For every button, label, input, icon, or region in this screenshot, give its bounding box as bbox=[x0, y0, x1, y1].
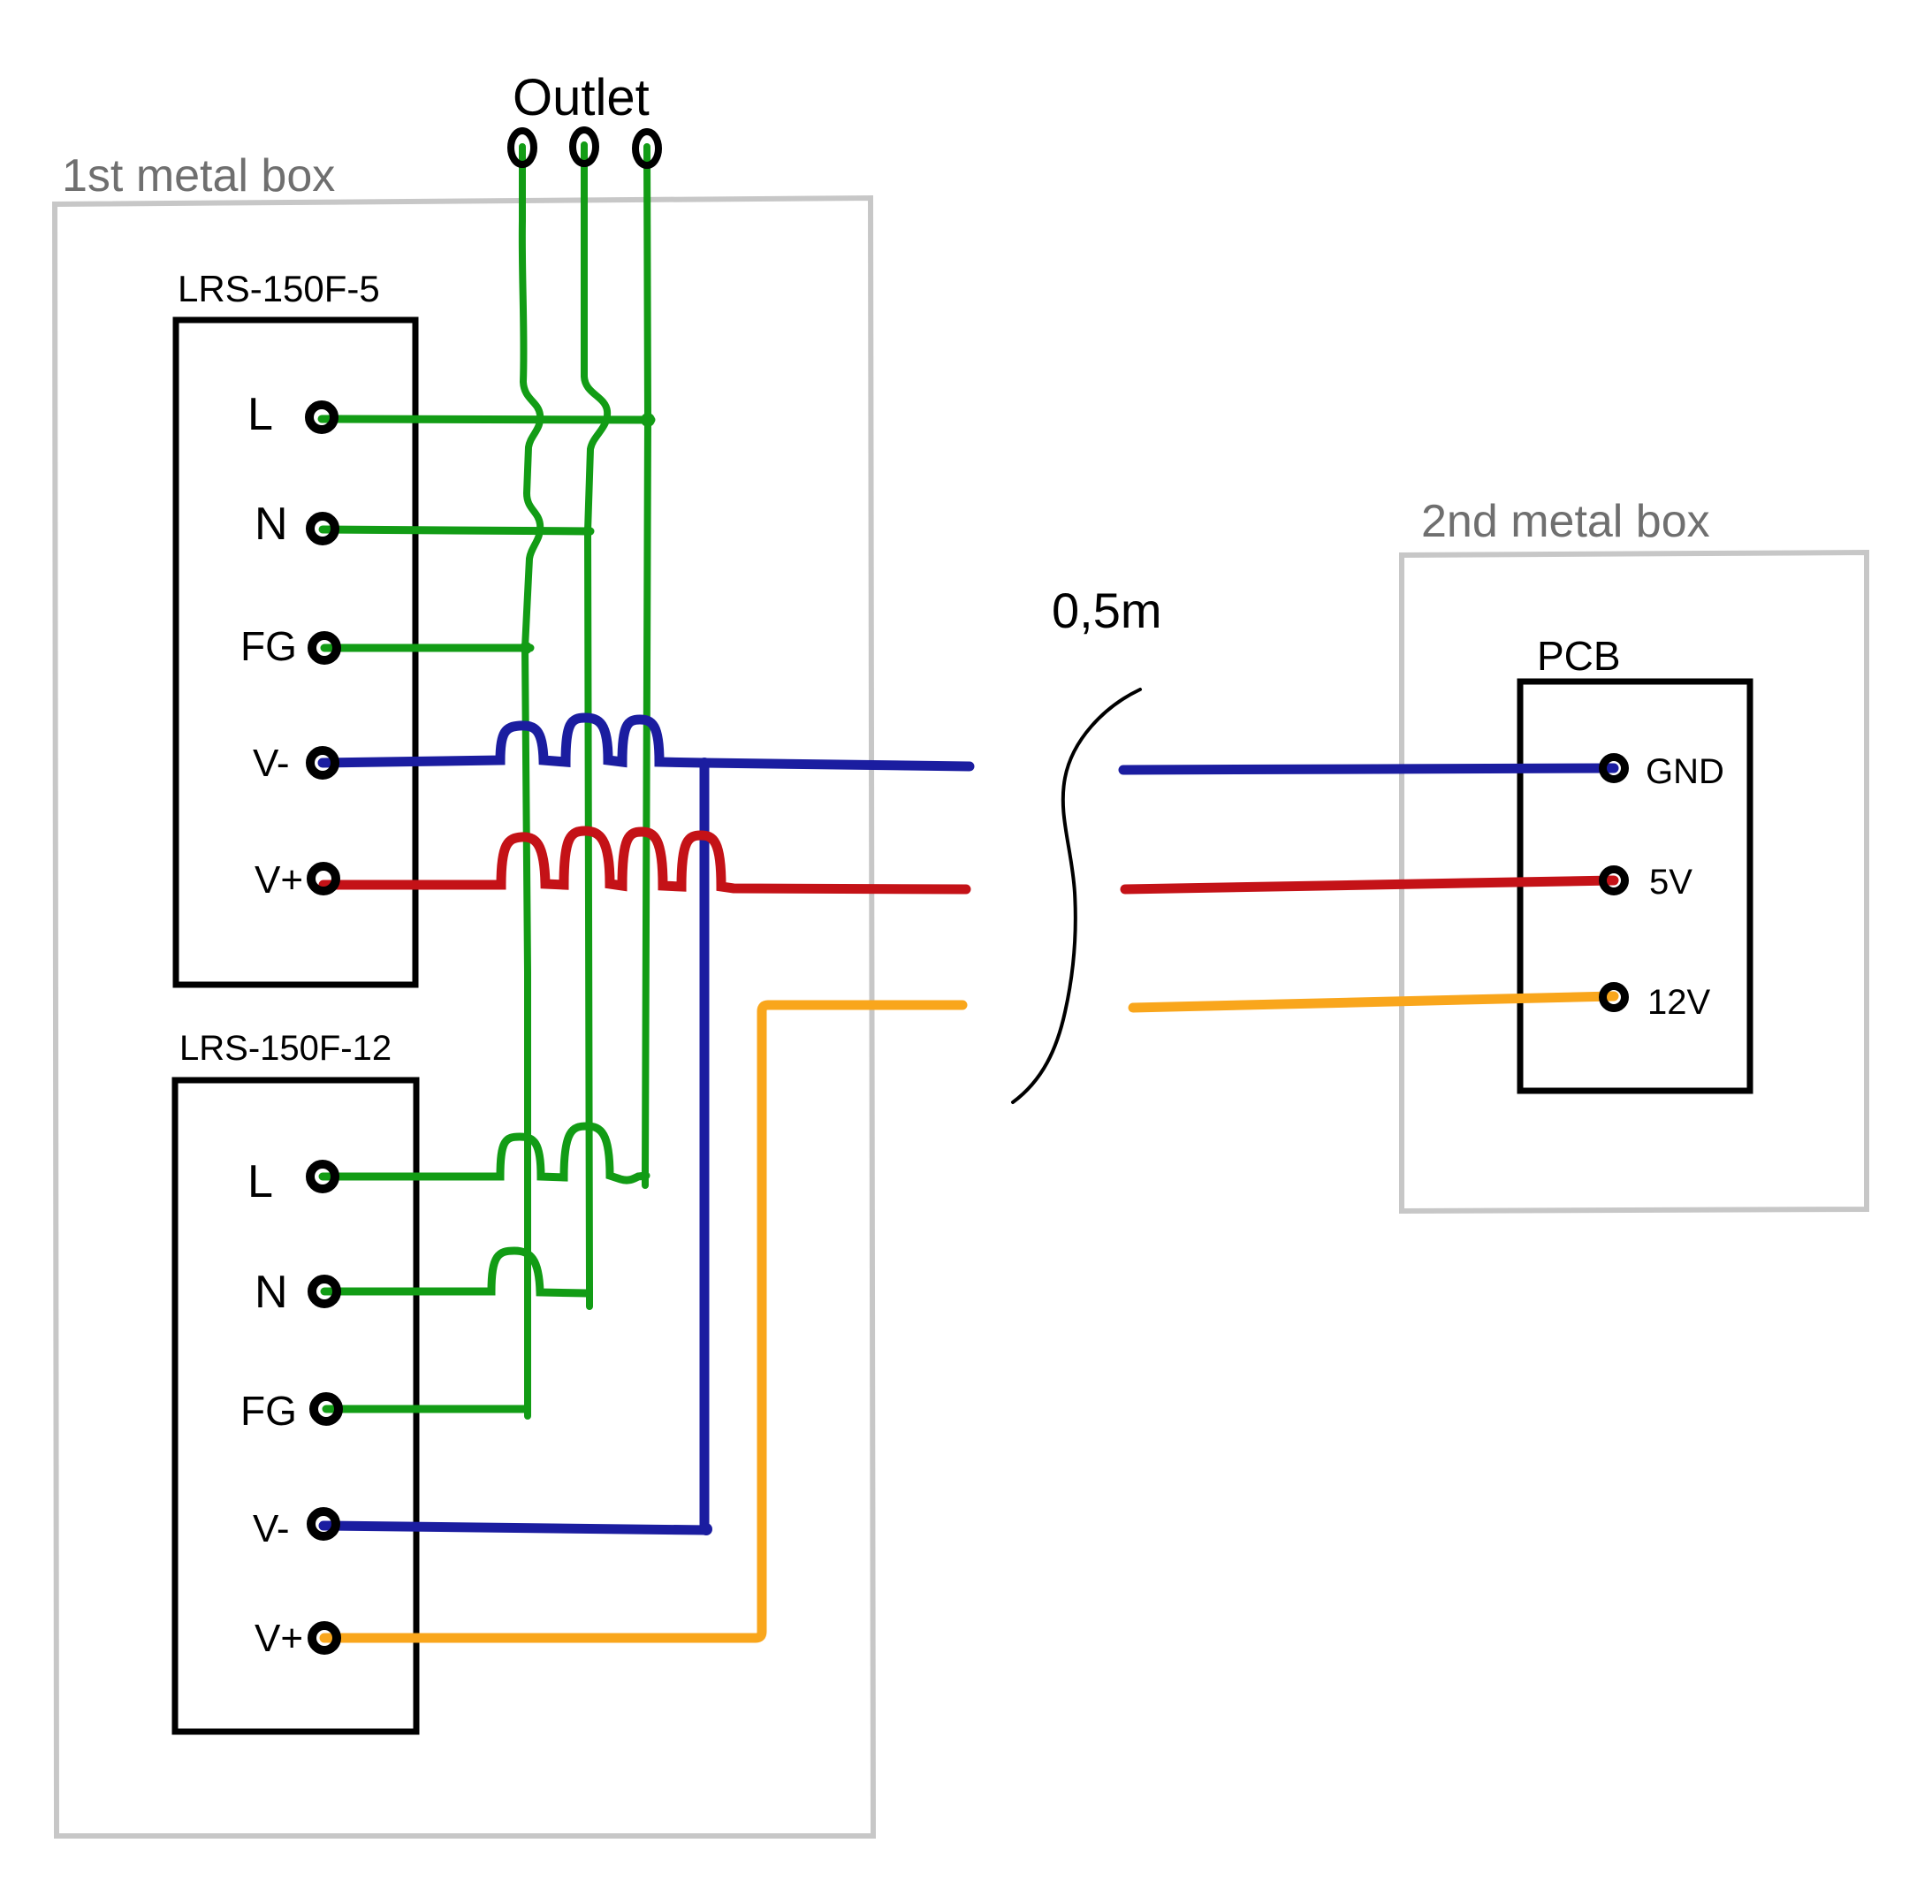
svg-text:PCB: PCB bbox=[1537, 633, 1621, 679]
terminal U1.V- bbox=[310, 750, 335, 775]
terminal U1.FG bbox=[312, 636, 337, 660]
outlet pin 3 bbox=[635, 132, 658, 165]
terminal U2.V- bbox=[311, 1512, 336, 1536]
wire FG2 feed (green) bbox=[326, 1405, 527, 1413]
terminal U1.L bbox=[309, 405, 334, 430]
svg-text:V+: V+ bbox=[255, 858, 303, 902]
line wire w3 from outlet pin3 down to U2.L bbox=[645, 147, 648, 1185]
wire N2 feed (green with hop over w1) bbox=[324, 1251, 587, 1293]
svg-text:V-: V- bbox=[253, 742, 290, 785]
wire 5V segment (red, cable to PCB.5V) bbox=[1125, 880, 1614, 889]
wire L2 feed (green with hops over w1,w2) bbox=[323, 1126, 646, 1180]
svg-text:L: L bbox=[247, 389, 273, 440]
wire V+2 (orange, U2.V+ up and right to cable break) bbox=[324, 1005, 962, 1638]
wire V+1 (red, U1.V+ with hops, to cable break) bbox=[323, 831, 966, 889]
wire V-1 (blue, U1.V- with hops, to cable break) bbox=[323, 718, 970, 766]
svg-text:FG: FG bbox=[240, 623, 297, 669]
1st metal box enclosure bbox=[55, 198, 873, 1836]
terminal PCB.12V bbox=[1603, 986, 1625, 1009]
svg-text:12V: 12V bbox=[1647, 983, 1710, 1022]
outlet pin 1 bbox=[511, 131, 534, 164]
svg-text:L: L bbox=[247, 1156, 273, 1207]
terminal PCB.5V bbox=[1603, 870, 1625, 892]
wire 12V segment (orange, cable to PCB.12V) bbox=[1133, 996, 1614, 1008]
terminal U1.N bbox=[310, 516, 335, 541]
terminal U2.L bbox=[310, 1164, 335, 1189]
wire GND segment (blue, cable to PCB.GND) bbox=[1123, 768, 1614, 770]
junction dot V-1/bus bbox=[698, 758, 711, 770]
wire blue vertical (V- bus down to U2.V-) bbox=[700, 764, 710, 1530]
PCB body bbox=[1520, 682, 1750, 1091]
svg-text:5V: 5V bbox=[1649, 863, 1692, 902]
svg-text:FG: FG bbox=[240, 1388, 297, 1434]
svg-text:1st metal box: 1st metal box bbox=[62, 150, 335, 202]
junction dot V-2/bus bbox=[700, 1523, 712, 1535]
junction dot L1/w3 bbox=[641, 413, 655, 427]
cable break squiggle bbox=[1013, 689, 1140, 1102]
terminal PCB.GND bbox=[1603, 758, 1625, 780]
svg-text:N: N bbox=[255, 499, 288, 550]
2nd metal box enclosure bbox=[1402, 552, 1867, 1211]
terminal U2.FG bbox=[314, 1397, 338, 1421]
outlet pin 2 bbox=[573, 130, 596, 164]
wire FG1 feed (green, U1.FG to earth wire) bbox=[324, 644, 530, 652]
svg-text:0,5m: 0,5m bbox=[1052, 583, 1162, 638]
terminal U1.V+ bbox=[311, 866, 336, 891]
junction dot N1/w2 bbox=[582, 526, 593, 537]
neutral wire w2 from outlet pin2 down to U2.N bbox=[584, 145, 607, 1306]
svg-text:N: N bbox=[255, 1267, 288, 1318]
svg-text:Outlet: Outlet bbox=[513, 69, 650, 126]
svg-text:V+: V+ bbox=[255, 1617, 303, 1660]
svg-text:GND: GND bbox=[1646, 752, 1724, 791]
terminal U2.V+ bbox=[312, 1626, 337, 1650]
svg-text:LRS-150F-12: LRS-150F-12 bbox=[179, 1029, 392, 1068]
svg-text:LRS-150F-5: LRS-150F-5 bbox=[178, 268, 380, 309]
junction dot FG1/w1 bbox=[520, 642, 532, 654]
terminal U2.N bbox=[312, 1279, 337, 1304]
power supply U1 LRS-150F-5 body bbox=[176, 320, 415, 985]
wire V-2 (blue, U2.V- to bus) bbox=[323, 1526, 707, 1530]
svg-text:V-: V- bbox=[253, 1507, 290, 1550]
svg-text:2nd metal box: 2nd metal box bbox=[1421, 496, 1710, 547]
wire L1 feed (green, U1.L to line wire) bbox=[322, 419, 651, 420]
earth wire w1 from outlet pin1 down to U2.FG bbox=[522, 147, 540, 1416]
power supply U2 LRS-150F-12 body bbox=[175, 1080, 416, 1732]
wire N1 feed (green, U1.N to neutral wire) bbox=[323, 529, 590, 531]
